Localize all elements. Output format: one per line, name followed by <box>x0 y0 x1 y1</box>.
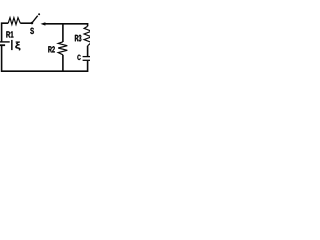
battery long plate (positive) <box>0 41 10 43</box>
wire bottom from R2 branch to battery <box>2 45 63 71</box>
switch S pivot dot <box>31 22 34 25</box>
wire R2 bottom lead <box>62 55 64 72</box>
wire R1 to switch pivot <box>20 22 31 24</box>
capacitor C bottom plate <box>83 59 92 61</box>
switch fixed contact arrowhead <box>41 22 46 25</box>
resistor R2 <box>58 42 67 55</box>
resistor R3 <box>84 26 91 46</box>
wire arrow to top-right corner <box>45 24 88 27</box>
switch S blade <box>32 16 38 23</box>
label R3 <box>75 35 81 42</box>
battery label bar <box>11 40 13 50</box>
capacitor C top plate <box>83 56 92 58</box>
label S <box>30 28 34 34</box>
label R2 <box>48 46 54 52</box>
battery label xi (emf) <box>15 42 20 51</box>
wire R3 to capacitor <box>87 46 89 56</box>
label C <box>77 55 80 60</box>
switch S blade tip dot <box>38 13 40 15</box>
resistor R1 <box>8 18 20 25</box>
label R1 <box>6 31 13 37</box>
wire top-left from battery corner to R1 <box>2 23 9 42</box>
battery short plate (negative) <box>0 44 5 46</box>
wire capacitor to bottom-right corner <box>63 61 88 71</box>
node T-junction top of R2 branch <box>62 24 64 42</box>
